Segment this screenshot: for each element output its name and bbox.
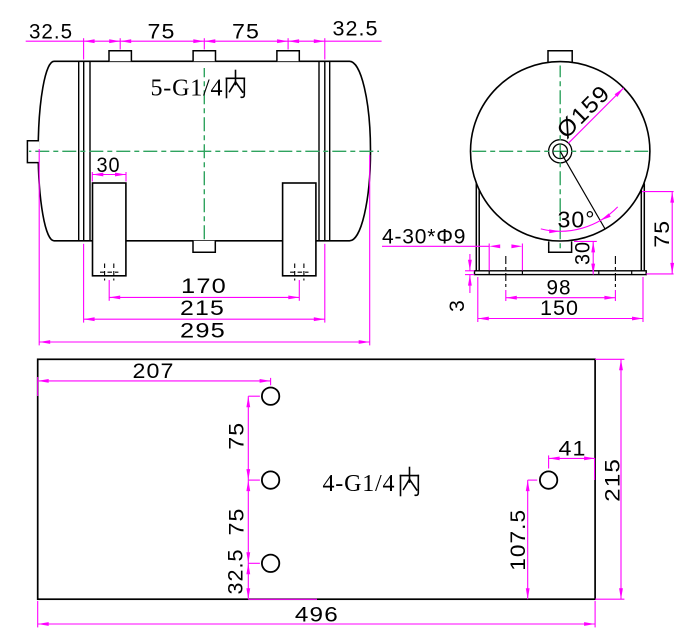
dimension 215 shell length <box>84 318 325 320</box>
svg-text:32.5: 32.5 <box>29 21 73 44</box>
left weld seam lines <box>79 61 90 241</box>
dimension 207 <box>38 380 271 382</box>
30 degree radial line <box>560 151 605 229</box>
base plate plan rectangle <box>38 359 595 599</box>
extension line right seam <box>324 38 326 59</box>
svg-text:207: 207 <box>133 360 175 383</box>
tank shell side view outline <box>38 61 370 241</box>
end view vertical centerline <box>559 66 561 251</box>
svg-text:496: 496 <box>295 603 339 626</box>
top port 2 <box>193 51 215 62</box>
dimension 107.5 <box>527 480 529 599</box>
extension line port3 center <box>287 38 289 49</box>
side view vertical centerline <box>203 68 205 241</box>
dimension 150 base width <box>478 318 643 320</box>
svg-text:215: 215 <box>601 458 624 502</box>
svg-text:75: 75 <box>148 21 176 44</box>
svg-text:30°: 30° <box>558 207 596 233</box>
dimension leader O159 <box>568 88 623 143</box>
svg-text:30: 30 <box>97 154 121 177</box>
svg-text:32.5: 32.5 <box>333 18 379 41</box>
right weld seam lines <box>319 61 330 241</box>
svg-text:98: 98 <box>547 276 572 299</box>
side view horizontal centerline <box>29 150 379 152</box>
base left side plate <box>476 183 479 270</box>
dimension 30 leg width <box>92 174 126 176</box>
base bottom plate <box>475 271 647 275</box>
svg-text:170: 170 <box>181 275 227 298</box>
end view horizontal centerline <box>471 150 652 152</box>
center hub inner circle <box>553 144 568 159</box>
dimension 41 <box>549 457 596 459</box>
leg slot centerlines right <box>290 264 308 281</box>
tapped hole A <box>262 388 279 405</box>
bolt hole centerline right <box>614 256 616 289</box>
svg-text:75: 75 <box>225 508 248 536</box>
dimension 30 slot length <box>488 244 490 271</box>
arrows top dimension chain <box>84 39 95 43</box>
bolt hole centerline left <box>505 256 507 289</box>
dimension 170 leg centers <box>109 296 299 298</box>
svg-text:30: 30 <box>572 241 595 265</box>
left end port <box>27 141 39 163</box>
bottom port end view <box>549 241 572 252</box>
svg-text:Ø159: Ø159 <box>551 80 615 144</box>
svg-text:4-30*Φ9: 4-30*Φ9 <box>382 226 466 249</box>
dimension arc 30 degrees <box>541 207 618 231</box>
svg-text:32.5: 32.5 <box>225 549 248 595</box>
tapped hole D <box>540 471 557 488</box>
extension line left seam <box>83 38 85 59</box>
dimension 30 port to base bottom <box>574 240 597 242</box>
bottom drain port <box>193 241 215 252</box>
slot marks base plate <box>489 271 632 275</box>
top port end view <box>548 51 572 62</box>
svg-text:75: 75 <box>225 422 248 450</box>
svg-text:41: 41 <box>559 437 587 460</box>
svg-text:107.5: 107.5 <box>507 509 530 571</box>
svg-text:215: 215 <box>180 297 225 320</box>
extension line port1 center <box>119 38 121 49</box>
tapped hole B <box>262 471 279 488</box>
base right side plate <box>641 183 644 270</box>
svg-text:3: 3 <box>446 299 469 312</box>
tapped hole C <box>262 555 279 572</box>
top port 1 <box>109 51 131 62</box>
svg-text:5-G1/4: 5-G1/4 <box>151 76 224 102</box>
svg-text:4-G1/4: 4-G1/4 <box>323 471 396 497</box>
svg-text:295: 295 <box>180 320 226 343</box>
dimension 496 plate length <box>38 623 595 625</box>
top port 3 <box>277 51 299 62</box>
extension line port2 center <box>203 38 205 49</box>
dimension 3 plate thickness <box>465 270 475 272</box>
dimension 295 overall length <box>39 341 370 343</box>
dimension chain line top <box>26 40 382 42</box>
svg-text:150: 150 <box>540 297 579 320</box>
dimension 215 plate depth <box>620 359 622 599</box>
svg-text:75: 75 <box>651 220 674 248</box>
dimension chain 75 75 32.5 vertical <box>247 396 249 599</box>
dimension 98 bolt hole spacing <box>506 297 616 299</box>
svg-text:75: 75 <box>232 21 260 44</box>
leg slot centerlines left <box>100 264 118 281</box>
mounting leg left <box>93 183 126 276</box>
mounting leg right <box>283 183 316 276</box>
dimension 75 base height <box>642 191 674 193</box>
tank end view circle <box>471 62 650 241</box>
center hub outer circle <box>549 140 572 163</box>
